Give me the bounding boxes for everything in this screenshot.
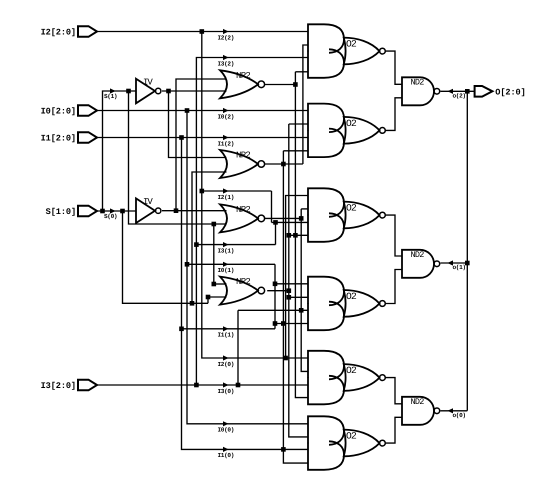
input port I2[2:0] (78, 26, 97, 37)
wire net S(1) drop x=213.8 to NR2#4 input1 (213, 224, 215, 284)
wire net S0n riser x=176 to NR2#1 input1 row y=79 (176, 79, 227, 211)
wire select vertical x=301.2 AO3-in2 to AO5-in2 (301, 208, 308, 210)
junction select tap at (288.8,297.3) to AO4 input2 (287, 295, 292, 300)
svg-text:S(1): S(1) (104, 93, 117, 100)
svg-text:NR2: NR2 (236, 151, 250, 161)
wire AO4 output to ND2#2 input2 (385, 270, 402, 304)
svg-text:S[1:0]: S[1:0] (46, 207, 76, 217)
wire net I3 vertical x=238 (237, 310, 239, 385)
junction on x=283.4 at AO6 input3 row (281, 447, 286, 452)
wire net O(0) from ND2#3 to O bus (441, 410, 468, 412)
junction select tap at (289.1,236) (287, 233, 292, 238)
AOI gate O2 #1 (308, 24, 344, 53)
junction S1n tap at (168.5,91) (166, 89, 171, 94)
junction S(1) tap at (128.5,91) (126, 89, 131, 94)
svg-text:I3[2:0]: I3[2:0] (41, 381, 76, 391)
wire row y=283.8 AO4 input1 (275, 283, 308, 285)
wire AO6 output to ND2#3 input2 (385, 417, 402, 443)
junction I0 tap at (187,264.3) (185, 262, 190, 267)
svg-text:NR2: NR2 (236, 71, 250, 81)
wire net I1(1) row y=328.8 to AO6 input2 riser (182, 328, 276, 330)
wire select vertical x=288.8 up to AO2 input2 and down to AO6 input2 (289, 123, 308, 125)
input port I1[2:0] (78, 132, 97, 143)
AOI gate O2 #5 (308, 351, 344, 380)
junction I3 tap at (238,385) (236, 383, 241, 388)
junction S(1) tap at (213.8,224) (212, 222, 217, 227)
svg-text:I1(0): I1(0) (218, 452, 235, 459)
wire net I1 row from port to AO2 input3 (97, 137, 308, 139)
junction I1 tap at (181.5,328.8) (179, 327, 184, 332)
net label I2(1) wire row y=191 to AO3 (202, 190, 272, 192)
wire riser x=275 from row 264.3 down to row 328.8 (274, 264, 276, 329)
wire net I0 vertical x=187 (187, 111, 308, 424)
AOI gate O2 #4 (308, 277, 344, 306)
wire net I0 row from port to AO2 input1 (97, 110, 308, 112)
NAND gate ND2 #2 (402, 250, 434, 278)
wire riser x=275.5 from row 244.6 up to AO3 input3 row (275, 222, 277, 244)
svg-text:I2(2): I2(2) (218, 34, 235, 41)
wire AO3 output to ND2#2 input1 (385, 215, 402, 256)
net label S(0) with arrow near S port (110, 208, 116, 213)
svg-text:I1(2): I1(2) (218, 140, 235, 147)
wire net O(2) from ND2#1 to output port (441, 90, 475, 92)
wire net S(1) riser x=102.5 to IV1 input (103, 91, 137, 211)
NOR gate NR2 #1 (220, 70, 258, 98)
wire net I3 row from port to AO5 input3 (97, 384, 308, 386)
AOI gate O2 #3 (308, 188, 344, 217)
wire net I2 row from port to AO1 input1 (97, 31, 308, 33)
net label o(2) with arrow (447, 89, 453, 94)
wire row y=222.4 to AO3 input3 (272, 221, 309, 223)
AOI gate O2 #6 (308, 416, 344, 445)
NAND gate ND2 #3 (402, 397, 434, 425)
wire net I0(1) riser to AO3 input1 (286, 196, 308, 359)
NAND gate ND2 #1 (402, 77, 434, 105)
wire net I0(1) row y=264.3 to AO4 input4 (187, 263, 275, 265)
wire NR2#3 output row y=218.4 (264, 217, 301, 219)
wire select vertical x=295.4 AO1-in4 to AO5-in4 (295, 71, 308, 73)
net label I2(2) with arrow (223, 29, 229, 34)
svg-text:o(2): o(2) (453, 92, 466, 99)
wire vertical x=271.5 down to AO3 input3 row (271, 191, 273, 222)
NOR gate NR2 #2 (220, 150, 258, 178)
junction select tap at (295.4,236) (293, 233, 298, 238)
wire net I3 vertical x=196.4 to row y=57.5 AO1 input3 (196, 58, 308, 386)
junction at (301.2,218.4) (299, 216, 304, 221)
wire O bus vertical x=467.3 (466, 91, 468, 411)
wire select riser x=302.9 to AO1 input2 (303, 45, 308, 164)
wire NR2#4 input1 stub (214, 283, 227, 285)
junction S0n tap at (176,210.7) (174, 208, 179, 213)
wire net S(0) riser x=208 to NR2#4 input2 (208, 297, 227, 303)
junction S tap at (122.5,211) (120, 209, 125, 214)
junction I1 tap at (181.5,137.5) (179, 135, 184, 140)
svg-text:I3(1): I3(1) (218, 247, 235, 254)
junction NR2#4 output tie at (288.8,290.7) (287, 288, 292, 293)
net label o(1) with arrow (447, 260, 453, 265)
wire net I1 vertical x=181.5 (182, 138, 309, 450)
svg-text:O[2:0]: O[2:0] (495, 88, 525, 98)
net label I3(0) with arrow on I3 row (223, 382, 229, 387)
net label I0(0) on row y=425 (223, 421, 229, 426)
wire select vertical x=283.4 from AO2-in4 down to AO6 input4 row (283, 150, 308, 152)
svg-text:I0(2): I0(2) (218, 113, 235, 120)
junction I3 tap at (196.4,385) (194, 383, 199, 388)
inverter IV2 (S(0)) (136, 198, 155, 223)
junction at NR2#4 input2 (208,297) (206, 295, 211, 300)
junction I3 tap at (196.4,244.6) (194, 242, 199, 247)
svg-text:I0(1): I0(1) (218, 267, 235, 274)
svg-text:ND2: ND2 (411, 78, 425, 88)
wire net S0n from IV2 bubble to NR2#3 input1 (162, 210, 227, 212)
svg-text:I1(1): I1(1) (218, 332, 235, 339)
wire AO5 output to ND2#3 input1 (385, 378, 402, 404)
svg-text:I2[2:0]: I2[2:0] (41, 28, 76, 38)
junction I2 tap at (202,191) (200, 189, 205, 194)
wire net S(1) raw drop x=128.5 to NR2#3 input2 row y=224 (129, 91, 227, 224)
svg-text:I3(0): I3(0) (218, 388, 235, 395)
svg-text:O2: O2 (346, 39, 357, 50)
net label I1(0) on row y=452 (223, 447, 229, 452)
input port I3[2:0] (78, 380, 97, 391)
net label o(0) with arrow (447, 408, 453, 413)
input port I0[2:0] (78, 105, 97, 116)
AOI gate O2 #2 (308, 104, 344, 133)
wire net S(0) riser x=192 to NR2#2 input2 row y=172 (192, 172, 227, 303)
junction at (283.4,164) (281, 162, 286, 167)
junction select tap at (301.2,310.3) to AO4 input3 (299, 308, 304, 313)
junction S tap at (102.5,211) (100, 209, 105, 214)
svg-text:I0(0): I0(0) (218, 427, 235, 434)
net label I1(2) with arrow (223, 135, 229, 140)
wire net S1n drop x=168.5 to NR2#2 input1 row y=157.5 (169, 91, 227, 158)
wire NR2#4 output to vertical x=289.2 (267, 290, 289, 292)
svg-text:o(1): o(1) (453, 264, 466, 271)
svg-text:NR2: NR2 (236, 205, 250, 215)
svg-text:O2: O2 (346, 203, 357, 214)
svg-text:S(0): S(0) (104, 213, 117, 220)
net label I0(2) with arrow (223, 108, 229, 113)
inverter IV1 (S(1)) (136, 79, 155, 104)
svg-text:ND2: ND2 (411, 250, 425, 260)
junction I2 tap at (202,31.5) (200, 29, 205, 34)
wire net S(0) drop x=122.5 to rail y=303.3 (123, 211, 209, 303)
input port S[1:0] (78, 206, 97, 217)
junction S(0) rail tap at (192,303.3) (190, 301, 195, 306)
NOR gate NR2 #4 (220, 277, 258, 305)
junction I0 tap at (187,110.5) (185, 108, 190, 113)
svg-text:ND2: ND2 (411, 397, 425, 407)
svg-text:I0[2:0]: I0[2:0] (41, 107, 76, 117)
wire net S row from port to IV2 input (97, 210, 136, 212)
net label I3(2) with arrow on row y=57.5 (223, 55, 229, 60)
wire net S1n from IV1 bubble to NR2#1 input2 (162, 90, 227, 92)
wire net I3(1) row y=244.6 to AO4 input1 (196, 244, 275, 246)
svg-text:o(0): o(0) (453, 412, 466, 419)
wire NR2#1 output to vertical x=295.4 (264, 84, 295, 86)
svg-text:I2(1): I2(1) (218, 194, 235, 201)
svg-text:NR2: NR2 (236, 277, 250, 287)
wire AO1 output to ND2#1 input1 (385, 51, 402, 84)
junction O bus tap at (467.3,263) (465, 261, 470, 266)
wire select row y=235.1 to AO3 input4 (289, 234, 308, 236)
wire net I2 vertical x=202 (202, 32, 308, 359)
junction O bus tap at (467.3,91.3) (465, 89, 470, 94)
junction at NR2#4 input1 (213.8,284) (212, 282, 217, 287)
svg-text:I3(2): I3(2) (218, 60, 235, 67)
svg-text:O2: O2 (346, 291, 357, 302)
svg-text:O2: O2 (346, 118, 357, 129)
net label I2(0) on row y=357 (223, 355, 229, 360)
wire AO2 output to ND2#1 input2 (385, 98, 402, 131)
output port O[2:0] (475, 86, 493, 97)
wire NR2#2 output row y=164 (264, 163, 303, 165)
svg-text:O2: O2 (346, 365, 357, 376)
NOR gate NR2 #3 (220, 204, 258, 232)
wire row y=323.5 AO4 input4 (275, 323, 308, 325)
wire net O(1) from ND2#2 to O bus (441, 262, 468, 264)
svg-text:I2(0): I2(0) (218, 361, 235, 368)
net label S(1) with arrow on IV1 input row (110, 88, 116, 93)
svg-text:O2: O2 (346, 431, 357, 442)
junction at (295.4,84.5) (293, 82, 298, 87)
svg-text:I1[2:0]: I1[2:0] (41, 134, 76, 144)
